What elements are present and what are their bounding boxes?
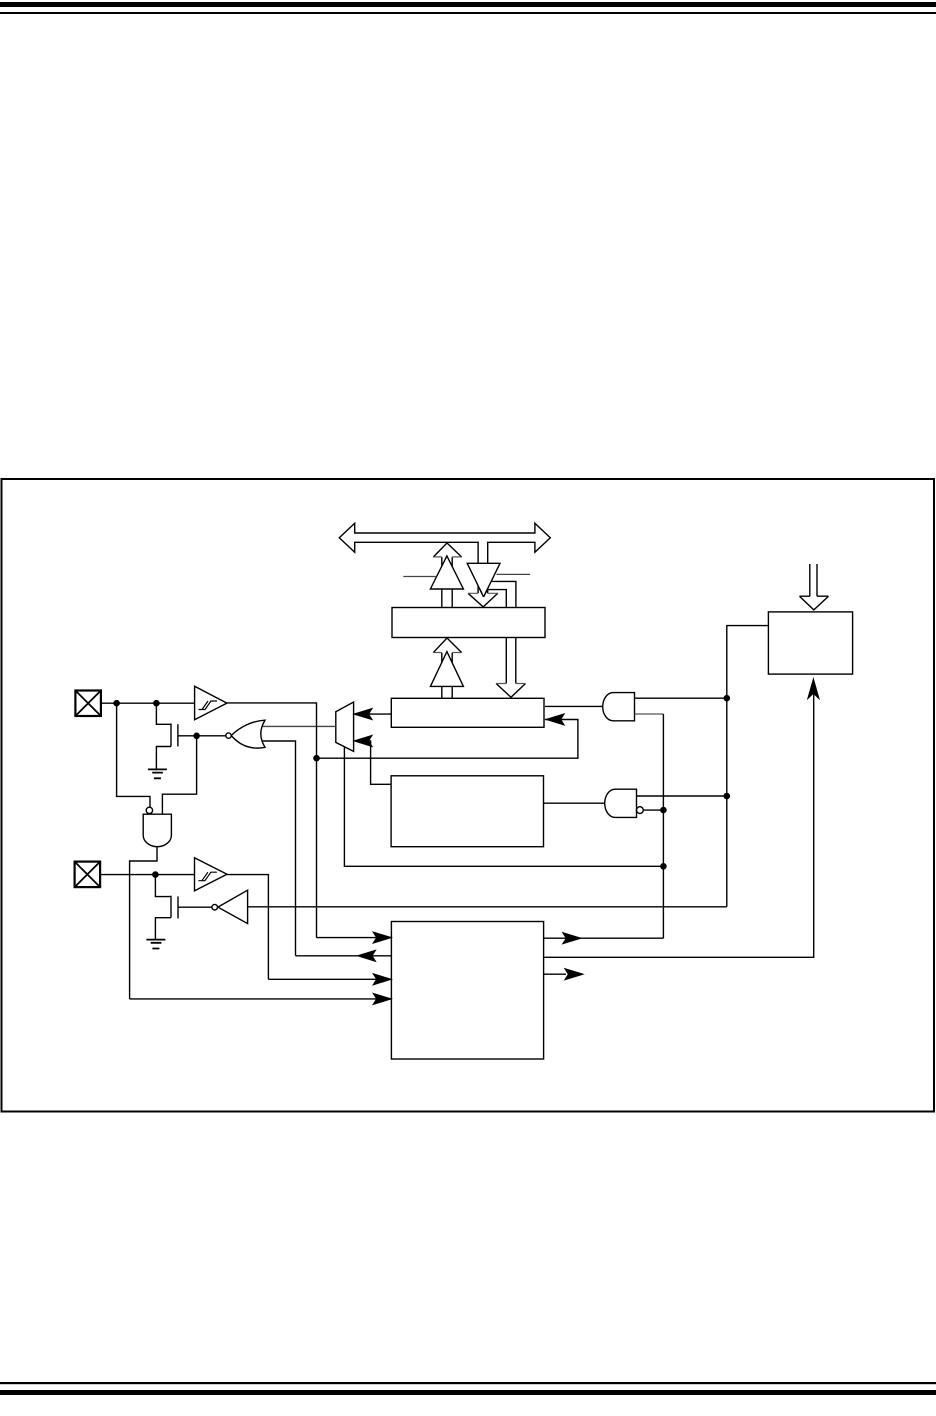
page footer rule thin bbox=[0, 1382, 936, 1384]
box3 (prescaler) bbox=[391, 776, 543, 847]
NAND U2 output wire bbox=[544, 802, 605, 804]
buffer triangle up 2 bbox=[430, 652, 463, 687]
AND gate U1 (left facing) bbox=[603, 693, 635, 721]
schmitt buffer 1 bbox=[195, 686, 227, 719]
mux input2 arrow bbox=[355, 736, 372, 746]
buffer triangle down bbox=[467, 563, 500, 597]
up block arrow 2 head bbox=[433, 638, 462, 653]
Q1 gate wire bbox=[178, 735, 226, 737]
arrow head row3 right bbox=[565, 969, 582, 979]
thin arrow head into TR box bottom bbox=[808, 680, 818, 698]
NMOS Q1 drain wire bbox=[156, 703, 171, 724]
schmitt buffer 2 bbox=[195, 858, 228, 891]
wire inverter input bbox=[248, 906, 727, 908]
arrow on row2 left (pointing left) bbox=[358, 951, 375, 961]
AND U1 input2 wire bbox=[635, 713, 664, 715]
wire pin1 node down to NAND input left bbox=[117, 703, 150, 807]
junction dot pin1 a bbox=[113, 700, 120, 707]
schmitt 2 hysteresis glyph bbox=[198, 872, 217, 881]
page header rule thick bbox=[0, 2, 936, 7]
box4 row4 wire bbox=[130, 998, 392, 1000]
wire box4 row2 right to TR arrow bbox=[544, 681, 814, 957]
arrow on row1 right bbox=[563, 933, 580, 943]
ground GND1 bbox=[148, 769, 167, 778]
wire Q1 gate node down to NAND input right bbox=[162, 736, 196, 814]
box4 (control block) bbox=[391, 922, 543, 1060]
buffer triangle up 1 bbox=[430, 556, 463, 589]
schmitt1 output wire bbox=[227, 703, 317, 938]
block arrow into TR box shaft bbox=[810, 564, 817, 598]
junction dot schmitt1 branch bbox=[313, 755, 320, 762]
junction dot mux select net bbox=[660, 863, 667, 870]
NAND U3 input bubble bbox=[146, 807, 152, 813]
junction dot NAND in1 bbox=[724, 793, 731, 800]
mux input1 arrow bbox=[355, 709, 372, 719]
AND U1 input1 wire bbox=[635, 697, 727, 699]
arrow into box4 row1 bbox=[374, 932, 391, 942]
pad pin1 bbox=[75, 691, 101, 717]
mux input1 wire bbox=[367, 713, 391, 715]
arrow into box4 row3 bbox=[374, 974, 391, 984]
Q1 gate bar bbox=[177, 724, 179, 746]
ground GND2 bbox=[146, 940, 165, 949]
wire box4 row1 right bbox=[544, 937, 664, 939]
arrow into box4 row4 bbox=[374, 994, 391, 1004]
NOR output bubble bbox=[226, 733, 231, 738]
up block arrow 1 (box1 to data bus) shaft bbox=[442, 555, 452, 608]
box4 row2 left wire bbox=[296, 955, 392, 957]
junction dot NAND bubble net bbox=[660, 807, 667, 814]
down block arrow 2 head bbox=[496, 684, 525, 698]
down block arrow 2 shaft (box1 to box2) bbox=[506, 638, 516, 686]
schmitt 1 hysteresis glyph bbox=[199, 701, 218, 710]
NAND U2 bubble wire bbox=[643, 809, 663, 811]
Q1 channel bar bbox=[170, 723, 172, 746]
junction dot pin1 b bbox=[153, 700, 160, 707]
block arrow into TR box head bbox=[800, 596, 829, 610]
Q2 source wire bbox=[155, 918, 171, 940]
multiplexer bbox=[336, 702, 354, 751]
NAND gate U2 (left facing, inverted lower input) bbox=[605, 789, 637, 817]
branch wire to box2 right arrow bbox=[317, 720, 578, 759]
mux select wire bbox=[344, 747, 663, 866]
Q2 gate bar bbox=[177, 896, 179, 918]
NAND U2 input bubble bbox=[637, 807, 644, 814]
wire box4 row3 right stub bbox=[544, 973, 566, 975]
mux output wire (to NOR) bbox=[263, 725, 336, 727]
page header rule thin bbox=[0, 12, 936, 14]
NAND gate U3 (down facing) bbox=[143, 814, 171, 846]
box2 (latch 2) bbox=[391, 698, 544, 727]
buffer triangle down apex over arrow bbox=[480, 589, 488, 597]
pin2 wire bbox=[100, 874, 194, 876]
net wire NAND bubble to box4 bbox=[662, 714, 664, 938]
down block arrow shaft (data bus to box1) bbox=[478, 542, 488, 595]
box4 row1 left wire bbox=[317, 937, 392, 939]
schmitt2 output wire bbox=[227, 875, 268, 980]
arrow into box2 right bbox=[547, 714, 564, 724]
down block arrow head bbox=[468, 593, 498, 607]
wide channel outer (buffer to box1 top) bbox=[492, 581, 516, 607]
box4 row3 left wire bbox=[268, 978, 391, 980]
AND U1 output wire bbox=[545, 705, 603, 707]
figure frame bbox=[2, 479, 935, 1112]
NOR input2 wire bbox=[263, 741, 296, 956]
up block arrow 1 head bbox=[433, 543, 462, 557]
pad pin2 bbox=[75, 862, 101, 888]
box1 (latch) bbox=[392, 608, 545, 638]
inverter U4 (left facing) bbox=[218, 890, 248, 923]
junction dot AND in1 bbox=[724, 695, 731, 702]
Q2 channel bar bbox=[170, 896, 172, 918]
label overbar fragment left bbox=[403, 576, 436, 578]
NMOS Q2 drain wire bbox=[155, 875, 171, 897]
box TR (top right block) bbox=[768, 612, 852, 674]
junction dot pin2 bbox=[152, 871, 159, 878]
wire TR box left to vertical bbox=[727, 626, 769, 907]
NOR gate (left facing) bbox=[231, 720, 265, 748]
label overbar fragment right bbox=[496, 573, 530, 575]
NAND U3 output wire bbox=[130, 847, 157, 999]
NAND U2 input1 wire bbox=[637, 795, 727, 797]
mux input2 wire bbox=[367, 741, 391, 784]
page footer rule thick bbox=[0, 1390, 936, 1395]
junction dot Q1 gate bbox=[193, 733, 200, 740]
inverter U4 bubble bbox=[212, 904, 218, 910]
data bus double arrow bbox=[339, 523, 550, 552]
inverter U4 output wire bbox=[178, 906, 212, 908]
up block arrow 2 shaft bbox=[442, 651, 452, 699]
wide channel inner bbox=[489, 590, 507, 608]
data bus shaft gap for down arrow bbox=[479, 541, 487, 544]
pin1 wire bbox=[101, 702, 195, 704]
Q1 source wire bbox=[156, 747, 171, 771]
